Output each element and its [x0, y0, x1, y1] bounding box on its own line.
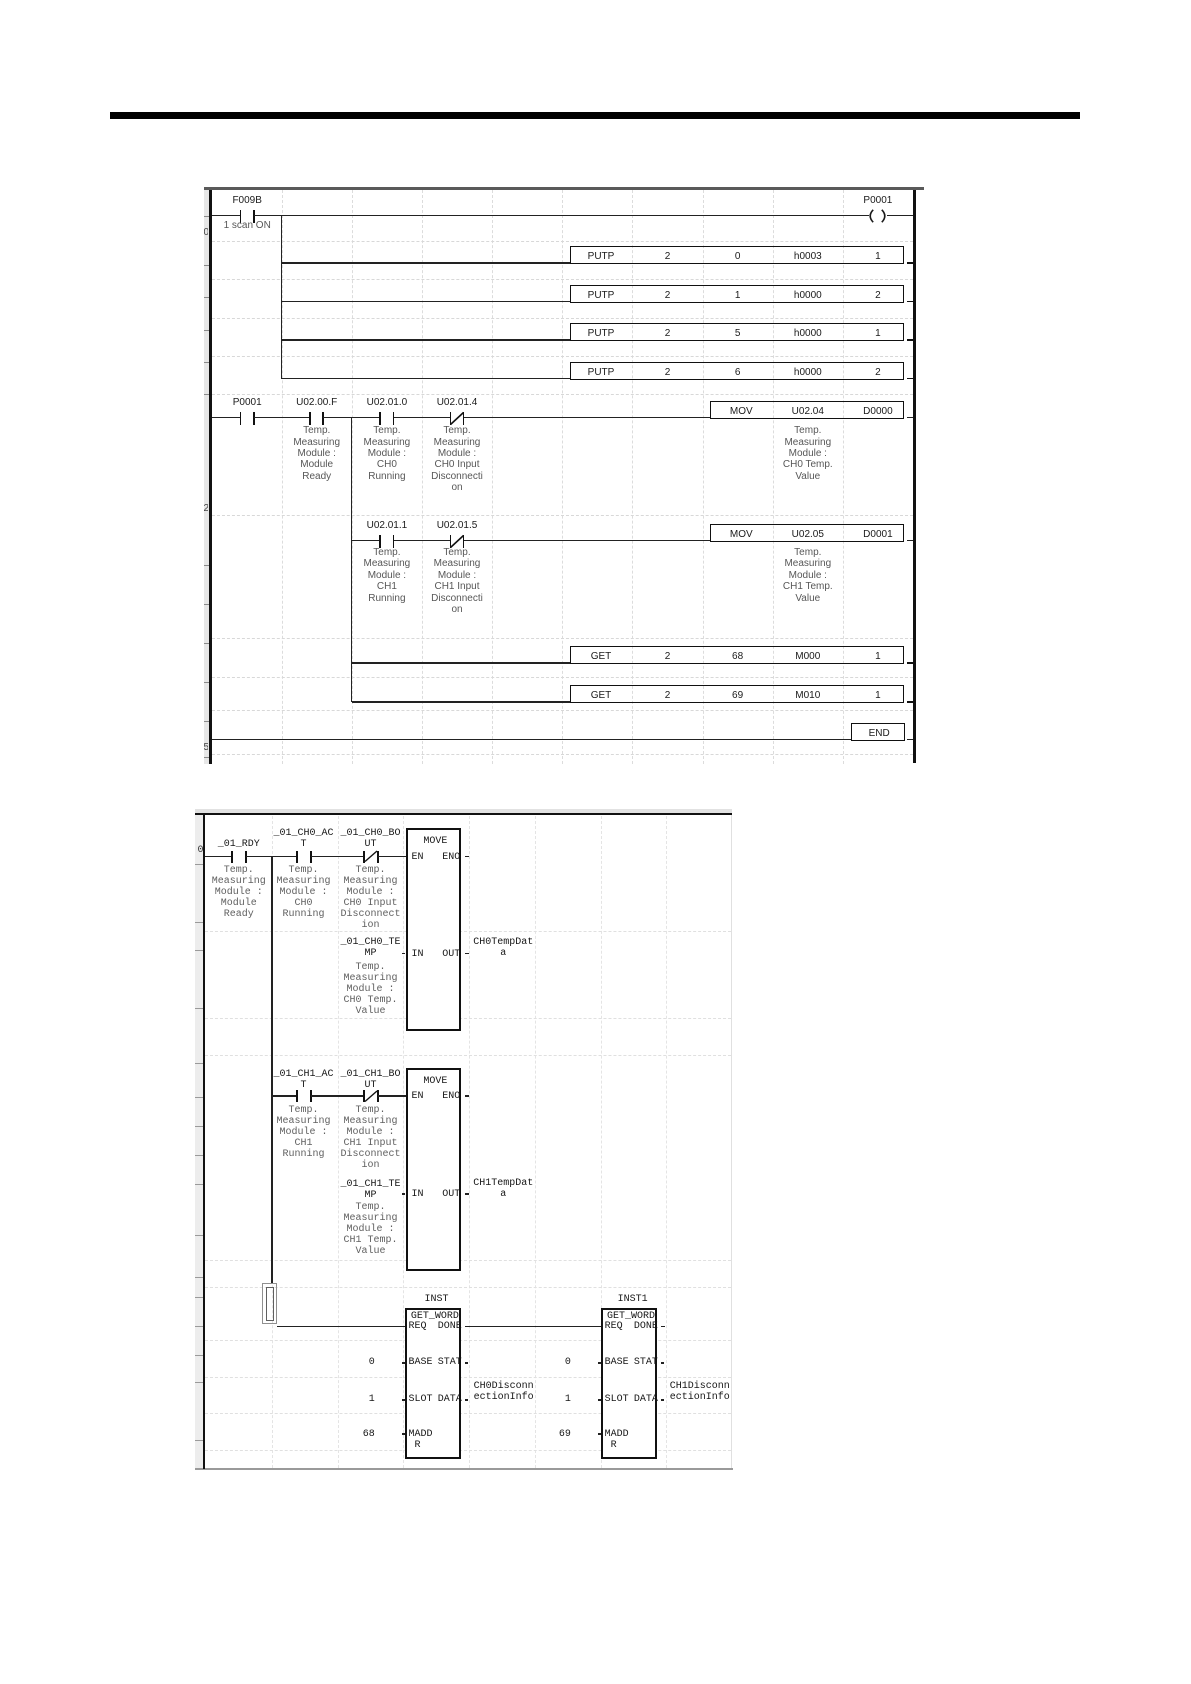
contact F009B — [240, 210, 242, 223]
PUTP branch wire 2 — [282, 301, 570, 302]
contact U02.01.5 (NC) — [450, 535, 452, 548]
instruction box END — [851, 723, 905, 741]
page top rule — [110, 112, 1080, 119]
wire to MOV box — [464, 540, 710, 541]
label U02.00.F — [247, 397, 387, 408]
pin REQ / DONE — [605, 1321, 623, 1332]
pin OUT — [370, 949, 460, 960]
wire to MOV box — [464, 417, 710, 418]
label _01_CH0_TEMP — [301, 937, 441, 959]
output variable CH1TempData — [471, 1178, 535, 1200]
instruction box GET 2 69 M010 1 — [570, 685, 905, 703]
wire — [394, 540, 451, 541]
grid vertical dashes s2 — [272, 816, 273, 1468]
label _01_CH1_TEMP — [301, 1179, 441, 1201]
contact U02.01.0 — [379, 412, 381, 425]
branch wire down from rung0 — [281, 216, 282, 379]
wire to rail — [907, 739, 913, 740]
right power rail — [913, 190, 916, 763]
screenshot 2 left gutter — [195, 815, 203, 1469]
instruction box MOV U02.04 D0000 — [710, 401, 905, 419]
wire to rail — [907, 417, 913, 418]
pin EN — [412, 852, 424, 863]
block type GET_WORD — [365, 1311, 505, 1322]
label P0001 — [808, 195, 948, 206]
wire — [246, 856, 297, 858]
branch wire down from rung1 — [351, 418, 352, 702]
contact _01_CH0_ACT — [296, 851, 299, 863]
PUTP branch wire 1 — [282, 262, 570, 263]
contact U02.01.4 (NC) — [450, 412, 452, 425]
pin REQ / DONE — [409, 1321, 427, 1332]
output variable CH1DisconnectionInfo — [670, 1381, 730, 1403]
wire — [254, 417, 310, 418]
contact U02.00.F — [309, 412, 311, 425]
wire — [311, 1095, 364, 1097]
block title MOVE CH1 — [365, 1076, 505, 1087]
label U02.01.1 — [317, 520, 457, 531]
block title MOVE — [365, 836, 505, 847]
instance label INST1 — [563, 1294, 703, 1305]
instruction box PUTP 2: PUTP 2 1 h0000 2 — [570, 285, 905, 303]
branch wire down s2 — [271, 857, 273, 1284]
pin EN — [412, 1091, 424, 1102]
description 1 scan ON — [177, 220, 317, 231]
rung wire s2 row1 — [205, 856, 232, 858]
wire to MOVE — [378, 1095, 407, 1097]
pin ENO — [370, 852, 460, 863]
screenshot 1 top border — [204, 187, 925, 190]
OUT stub wire — [465, 1193, 469, 1195]
contact _01_CH1_ACT — [296, 1090, 299, 1102]
pin ENO — [370, 1091, 460, 1102]
IN stub wire — [402, 953, 406, 955]
pin IN — [412, 1189, 424, 1200]
wire — [394, 417, 451, 418]
grid horizontal dashes — [212, 241, 914, 242]
label _01_CH0_ACT — [234, 828, 374, 850]
instance label INST — [367, 1294, 507, 1305]
left power rail s2 — [203, 815, 205, 1469]
rung 0 wire left — [212, 215, 241, 216]
PUTP branch wire 4 — [282, 378, 570, 379]
label U02.01.0 — [317, 397, 457, 408]
contact _01_RDY — [231, 851, 234, 863]
label U02.01.4 — [387, 397, 527, 408]
pin MADDR value 68 — [402, 1433, 405, 1435]
instruction box GET 2 68 M000 1 — [570, 646, 905, 664]
label P0001 contact — [177, 397, 317, 408]
pin BASE value 0 — [402, 1362, 405, 1364]
PUTP branch wire 3 — [282, 339, 570, 340]
pin IN — [412, 949, 424, 960]
branch junction double rectangle — [262, 1283, 277, 1324]
ENO stub wire — [465, 856, 469, 858]
rung 0 wire middle — [254, 215, 869, 216]
label U02.01.5 — [387, 520, 527, 531]
screenshot 2 bottom border — [195, 1468, 733, 1470]
rung wire s2 row3 — [277, 1326, 405, 1328]
output variable CH0DisconnectionInfo — [474, 1381, 534, 1403]
pin SLOT value 1 — [402, 1399, 405, 1401]
screenshot 1 left gutter — [204, 190, 209, 764]
rung number 0 — [204, 190, 209, 763]
contact _01_CH1_BOUT (NC) — [363, 1090, 366, 1102]
coil P0001 — [865, 209, 890, 223]
wire — [311, 856, 364, 858]
grid horizontal dashes s2 — [205, 931, 731, 932]
contact _01_CH0_BOUT (NC) — [363, 851, 366, 863]
function block MOVE (CH0) — [406, 828, 462, 1031]
pin OUT — [370, 1189, 460, 1200]
instruction box PUTP 1: PUTP 2 0 h0003 1 — [570, 246, 905, 264]
GET branch wire 2 — [352, 701, 570, 702]
rung 0 wire right — [887, 215, 913, 216]
DONE stub wire INST1 — [661, 1326, 665, 1328]
screenshot 2 top gray band — [195, 809, 732, 814]
left power rail — [209, 190, 212, 764]
grid vertical dashes — [282, 190, 283, 764]
IN stub wire — [402, 1193, 406, 1195]
output variable CH0TempData — [471, 937, 535, 959]
GET branch wire 1 — [352, 662, 570, 663]
wire — [323, 417, 380, 418]
pin BASE value 0 — [598, 1362, 601, 1364]
pin SLOT value 1 — [598, 1399, 601, 1401]
label _01_CH0_BOUT — [301, 828, 441, 850]
rung 1 wire — [212, 417, 241, 418]
wire to rail — [907, 540, 913, 541]
label _01_CH1_ACT — [234, 1069, 374, 1091]
contact U02.01.1 — [379, 535, 381, 548]
contact P0001 — [240, 412, 242, 425]
wire between INST and INST1 — [465, 1326, 601, 1328]
rung number 0 s2 — [195, 815, 203, 1468]
END rung wire — [212, 739, 852, 740]
function block MOVE (CH1) — [406, 1068, 462, 1271]
label _01_RDY — [169, 839, 309, 850]
OUT stub wire — [465, 953, 469, 955]
instruction box PUTP 4: PUTP 2 6 h0000 2 — [570, 362, 905, 380]
screenshot 2 right faint edge — [731, 815, 732, 1468]
block type GET_WORD — [561, 1311, 701, 1322]
instruction box MOV U02.05 D0001 — [710, 524, 905, 542]
wire to MOVE — [378, 856, 407, 858]
ENO stub wire — [465, 1095, 469, 1097]
pin MADDR value 69 — [598, 1433, 601, 1435]
rung CH1 wire — [352, 540, 381, 541]
screenshot 2 top border line — [195, 813, 732, 815]
rung wire s2 row2 — [272, 1095, 296, 1097]
instruction box PUTP 3: PUTP 2 5 h0000 1 — [570, 323, 905, 341]
label F009B — [177, 195, 317, 206]
label _01_CH1_BOUT — [301, 1069, 441, 1091]
